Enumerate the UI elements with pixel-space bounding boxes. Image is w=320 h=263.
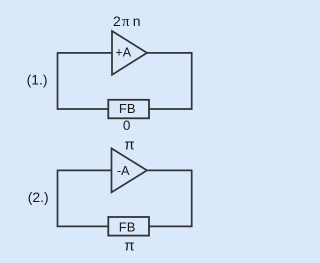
svg-text:-A: -A — [117, 164, 130, 178]
wire: amplifier U1 output to top-right corner — [146, 52, 193, 54]
wire: left vertical of loop 2 — [57, 170, 59, 227]
svg-text:0: 0 — [123, 118, 131, 133]
svg-text:FB: FB — [119, 101, 136, 116]
wire: input to amplifier U2 (top-left rail) — [58, 169, 112, 171]
feedback block FB2 — [108, 217, 149, 236]
svg-text:(1.): (1.) — [27, 71, 48, 87]
wire: FB2 to bottom-right corner — [149, 225, 193, 227]
feedback block FB1 — [108, 100, 149, 119]
op-amp U1 (+A amplifier) — [112, 31, 147, 75]
wire: bottom-left rail to FB1 — [57, 108, 109, 110]
wire: amplifier U2 output to top-right corner — [146, 169, 193, 171]
svg-text:(2.): (2.) — [28, 189, 49, 205]
wire: right vertical of loop 1 — [191, 53, 193, 110]
wire: input to amplifier U1 (top-left rail) — [58, 52, 113, 54]
wire: left vertical of loop 1 — [57, 52, 59, 109]
svg-text:+A: +A — [115, 46, 131, 60]
svg-text:π: π — [124, 237, 134, 254]
op-amp U2 (-A amplifier) — [112, 148, 148, 192]
wire: right vertical of loop 2 — [191, 170, 193, 227]
wire: bottom-left rail to FB2 — [57, 225, 109, 227]
svg-text:2πn: 2πn — [113, 13, 140, 30]
svg-text:π: π — [124, 137, 134, 154]
wire: FB1 to bottom-right corner — [149, 108, 193, 110]
svg-text:FB: FB — [119, 219, 136, 234]
